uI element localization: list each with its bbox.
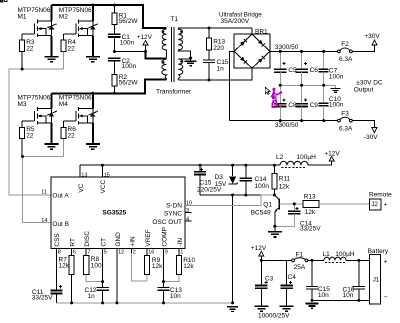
capacitor C3 10000/25V xyxy=(255,260,273,305)
svg-text:13: 13 xyxy=(81,172,87,178)
svg-text:12k: 12k xyxy=(59,263,70,270)
junction: M2 drain / top rail xyxy=(91,4,94,7)
svg-text:C4: C4 xyxy=(288,274,297,281)
junction: M4 drain / bottom rail xyxy=(91,92,94,95)
bridge diode D-SE xyxy=(258,56,265,63)
ground (M3 source) xyxy=(45,144,59,149)
junction: C14 node xyxy=(244,194,247,197)
connector J2 Remote xyxy=(369,191,392,209)
junction: Q1 base / C14 xyxy=(293,202,296,205)
wire and -30V arrow xyxy=(352,121,378,141)
svg-text:33/25V: 33/25V xyxy=(32,295,53,302)
svg-text:RT: RT xyxy=(70,238,77,247)
svg-text:100n: 100n xyxy=(255,183,270,190)
capacitor C7 100n xyxy=(319,51,344,85)
junction: C7-C10 / mid rail xyxy=(322,84,325,87)
svg-text:R11: R11 xyxy=(279,175,291,182)
pin 4 OSC OUT stub xyxy=(185,220,192,222)
secondary top winding xyxy=(178,28,190,51)
svg-text:4: 4 xyxy=(186,216,189,222)
svg-text:CSS: CSS xyxy=(54,233,61,247)
resistor R6 22 xyxy=(61,126,76,156)
junction: VCC / +12V rail xyxy=(101,164,104,167)
capacitor C9 xyxy=(295,85,318,120)
capacitor C1 100n xyxy=(108,34,134,52)
svg-text:56/2W: 56/2W xyxy=(119,18,139,25)
svg-text:Transformer: Transformer xyxy=(156,89,192,96)
resistor R13 12k (remote) xyxy=(303,194,319,216)
resistor R13 220 (snubber) xyxy=(206,28,225,52)
svg-text:J2: J2 xyxy=(371,201,378,208)
bottom pin stubs 8,6,7,5,12,2,16,9,1 xyxy=(57,249,184,256)
svg-text:1: 1 xyxy=(180,250,183,256)
svg-text:1n: 1n xyxy=(217,65,225,72)
svg-text:M2: M2 xyxy=(59,14,68,21)
ground (secondary center tap) xyxy=(185,59,197,66)
svg-text:10n: 10n xyxy=(343,292,354,299)
pin 13 VC stub xyxy=(79,165,81,177)
svg-text:+12V: +12V xyxy=(324,151,340,158)
svg-text:16: 16 xyxy=(148,250,154,256)
IC U1 SG3525 xyxy=(51,177,185,248)
wire: bridge left corner to -30V rail xyxy=(230,51,235,120)
bridge diode D-SW xyxy=(240,57,247,64)
capacitor C10 100n xyxy=(319,85,344,120)
svg-text:2: 2 xyxy=(133,250,136,256)
svg-text:+IN: +IN xyxy=(130,236,137,247)
junction: C16 / battery rail xyxy=(357,259,360,262)
junction: C14 / +12V rail xyxy=(244,164,247,167)
svg-text:6.3A: 6.3A xyxy=(339,56,353,63)
capacitor C15 220/25V xyxy=(194,165,222,195)
0V mid rail xyxy=(280,84,335,86)
ground (M4 source) xyxy=(86,144,100,149)
wire: secondary top to bridge xyxy=(178,28,252,29)
svg-text:12k: 12k xyxy=(183,263,194,270)
svg-text:12k: 12k xyxy=(152,263,163,270)
capacitor C15 1n (snubber) xyxy=(203,50,229,80)
svg-text:C6: C6 xyxy=(310,67,319,74)
junction: R13 snubber / secondary top xyxy=(208,27,211,30)
svg-text:100n: 100n xyxy=(122,63,137,70)
ground (M2 source) xyxy=(86,57,100,62)
capacitor C14 33/25V xyxy=(275,204,321,233)
junction: C1-C2 node xyxy=(113,50,116,53)
svg-text:12k: 12k xyxy=(305,209,316,216)
pin 3 SYNC stub xyxy=(185,212,192,214)
svg-text:-IN: -IN xyxy=(177,238,184,247)
svg-text:9: 9 xyxy=(165,250,168,256)
transformer T1 xyxy=(156,16,192,95)
svg-text:6.3A: 6.3A xyxy=(339,125,353,132)
svg-text:S-DN: S-DN xyxy=(166,202,182,209)
junction: D3 / +12V rail xyxy=(231,164,234,167)
ground (C15 filter) xyxy=(306,304,319,309)
junction: Q1 emitter ground xyxy=(273,225,276,228)
capacitor C14 100n xyxy=(240,165,270,195)
svg-text:1n: 1n xyxy=(88,293,96,300)
filter bottom rail xyxy=(312,299,369,301)
corner artifact xyxy=(0,0,8,2)
svg-text:VC: VC xyxy=(78,183,85,192)
transistor M4 MTP75N06 xyxy=(59,93,98,143)
wire: C1/C2 node to +12V tap xyxy=(114,51,145,53)
capacitor C5 3300/50 xyxy=(274,51,297,85)
junction: C13 / gnd rail xyxy=(162,301,165,304)
IC ground rail xyxy=(57,302,233,304)
svg-text:12k: 12k xyxy=(279,183,290,190)
bridge rectifier BR1 Ultrafast 35A/200V xyxy=(219,12,270,81)
capacitor C13 10n xyxy=(157,253,182,303)
svg-text:DISC: DISC xyxy=(84,231,91,247)
svg-text:F3: F3 xyxy=(341,111,349,118)
wire: gate bus A (Out A to R3,R4) xyxy=(9,69,63,195)
svg-text:Remote: Remote xyxy=(369,191,392,198)
junction: C12 / gnd rail xyxy=(101,301,104,304)
junction: C3 / battery rail xyxy=(260,259,263,262)
svg-text:11: 11 xyxy=(41,190,47,196)
junction: R5 / gate bus B xyxy=(21,155,24,158)
svg-text:100µH: 100µH xyxy=(297,154,317,161)
svg-text:+30V: +30V xyxy=(364,33,380,40)
svg-text:Output: Output xyxy=(354,87,374,94)
resistor R5 22 xyxy=(20,126,35,156)
junction: R1 / top rail xyxy=(113,4,116,7)
junction: GND pin / gnd rail xyxy=(115,301,118,304)
svg-text:33/25V: 33/25V xyxy=(300,226,321,233)
svg-text:T1: T1 xyxy=(171,16,179,23)
svg-text:22: 22 xyxy=(26,45,34,52)
svg-text:CT: CT xyxy=(101,238,108,247)
svg-text:35A/200V: 35A/200V xyxy=(221,18,250,25)
capacitor C2 100n xyxy=(108,58,136,75)
wire: gate bus B (Out B to R5,R6) xyxy=(23,157,64,223)
svg-text:6: 6 xyxy=(73,250,76,256)
svg-text:Out B: Out B xyxy=(52,221,69,228)
fuse F2 6.3A xyxy=(338,41,354,63)
resistor R2 56/2W xyxy=(112,74,139,93)
junction: C15 / +12V rail xyxy=(199,164,202,167)
junction: R11 / +12V rail xyxy=(273,164,276,167)
resistor R4 22 xyxy=(61,39,76,69)
svg-text:VCC: VCC xyxy=(100,179,107,193)
junction: R7 / gnd rail xyxy=(70,301,73,304)
junction: +12V tap / center tap xyxy=(144,50,147,53)
svg-text:10n: 10n xyxy=(170,293,181,300)
ground (C4) xyxy=(280,306,294,311)
svg-text:SYNC: SYNC xyxy=(164,211,182,218)
junction: R3 / gate bus A xyxy=(21,68,24,71)
svg-text:22: 22 xyxy=(68,133,76,140)
battery 12V rail xyxy=(261,259,291,261)
svg-text:Battery: Battery xyxy=(368,248,389,255)
svg-text:+: + xyxy=(384,201,388,208)
svg-text:14: 14 xyxy=(41,218,47,224)
svg-text:15: 15 xyxy=(104,172,110,178)
ground (mid rail) xyxy=(330,85,340,92)
+12V supply arrow (primary center tap) xyxy=(137,34,153,52)
pin 15 VCC stub xyxy=(101,165,103,177)
wire: secondary bottom to bridge xyxy=(178,68,252,80)
svg-text:+: + xyxy=(384,259,388,266)
wire and +30V arrow xyxy=(352,33,380,52)
junction: C7 / +30V rail xyxy=(322,50,325,53)
svg-text:BC549: BC549 xyxy=(251,209,271,216)
wire: C15/D3/C14 node line xyxy=(200,194,274,196)
svg-text:22: 22 xyxy=(26,133,34,140)
svg-text:F2: F2 xyxy=(341,41,349,48)
svg-text:8: 8 xyxy=(58,250,61,256)
+12V arrow at L2 xyxy=(308,151,340,166)
resistor R1 56/2W xyxy=(112,5,139,34)
svg-text:10n: 10n xyxy=(318,292,329,299)
junction: C5-C8 / mid rail xyxy=(279,84,282,87)
connector J1 Battery xyxy=(368,248,389,304)
svg-text:3300/50: 3300/50 xyxy=(275,44,299,51)
ground (Q1 emitter) xyxy=(268,226,282,237)
secondary bottom winding xyxy=(178,59,183,80)
svg-text:15V: 15V xyxy=(215,181,227,188)
svg-text:C14: C14 xyxy=(255,176,267,183)
svg-text:SG3525: SG3525 xyxy=(102,209,126,216)
junction: R10-COMP node xyxy=(162,280,165,283)
primary top winding xyxy=(162,29,166,58)
junction: C15 snubber / secondary bottom xyxy=(208,79,211,82)
svg-text:VREF: VREF xyxy=(145,229,152,246)
svg-text:100µH: 100µH xyxy=(335,251,355,258)
svg-text:−: − xyxy=(384,294,388,301)
svg-text:Q1: Q1 xyxy=(263,202,272,209)
resistor R9 12k xyxy=(144,253,163,281)
transistor M2 MTP75N06 xyxy=(59,5,98,56)
+30V DC rail xyxy=(270,50,338,52)
ground (D3 node line) xyxy=(227,307,238,312)
svg-text:10000/25V: 10000/25V xyxy=(258,313,290,320)
svg-text:±30V DC: ±30V DC xyxy=(356,80,383,87)
wire: D3 node down to ground xyxy=(232,195,234,303)
capacitor C12 1n xyxy=(85,253,109,303)
junction: C15 filter / bottom rail xyxy=(311,299,314,302)
+12V arrow (battery input) xyxy=(251,245,267,260)
junction: secondary center tap xyxy=(189,57,192,60)
svg-text:M3: M3 xyxy=(18,101,27,108)
wire: R13 to J2 xyxy=(319,203,370,205)
svg-text:J1: J1 xyxy=(373,277,380,284)
bridge diode D-NW xyxy=(240,39,247,46)
svg-text:COMP: COMP xyxy=(162,227,169,247)
svg-text:56/2W: 56/2W xyxy=(119,79,139,86)
junction: R8-CT node xyxy=(101,280,104,283)
junction: C10 / -30V rail xyxy=(322,119,325,122)
svg-text:C9: C9 xyxy=(310,102,319,109)
resistor R10 12k xyxy=(164,253,196,282)
resistor R7 12k xyxy=(59,253,75,303)
resistor R11 12k xyxy=(272,165,291,195)
svg-text:GND: GND xyxy=(115,232,122,247)
inductor L1 100uH xyxy=(323,251,355,262)
svg-text:100n: 100n xyxy=(329,74,344,81)
junction: D3 node xyxy=(231,194,234,197)
svg-text:+12V: +12V xyxy=(251,245,267,252)
transistor M3 MTP75N06 xyxy=(18,93,57,143)
svg-text:M1: M1 xyxy=(18,14,27,21)
svg-text:12: 12 xyxy=(118,250,124,256)
core xyxy=(172,27,175,82)
output label xyxy=(354,80,383,94)
svg-text:Out A: Out A xyxy=(52,192,69,199)
capacitor C4 xyxy=(281,260,297,305)
capacitor C8 3300/50 xyxy=(274,85,297,120)
+12V supply rail above IC xyxy=(80,164,280,166)
wire: +IN to R9 xyxy=(132,253,148,281)
svg-text:5: 5 xyxy=(104,250,107,256)
svg-text:R13: R13 xyxy=(304,194,316,201)
junction: Q1 collector node xyxy=(273,194,276,197)
svg-text:22: 22 xyxy=(68,45,76,52)
svg-text:M4: M4 xyxy=(59,101,68,108)
capacitor C16 10n xyxy=(343,260,366,300)
transistor M1 MTP75N06 xyxy=(18,5,57,56)
magenta sprite artifact xyxy=(271,88,283,107)
primary bottom winding xyxy=(162,59,167,79)
zener D3 15V xyxy=(215,165,238,188)
svg-text:OSC OUT: OSC OUT xyxy=(152,219,182,226)
resistor R8 100 xyxy=(84,253,103,282)
svg-text:L1: L1 xyxy=(323,251,331,258)
inductor L2 100uH xyxy=(276,154,316,168)
svg-text:220: 220 xyxy=(213,45,224,52)
svg-text:3300/50: 3300/50 xyxy=(275,122,299,129)
svg-text:100n: 100n xyxy=(329,101,344,108)
fuse F3 6.3A xyxy=(338,111,354,133)
svg-text:100n: 100n xyxy=(120,39,135,46)
junction: C5 / +30V rail xyxy=(279,50,282,53)
junction: C8 / -30V rail xyxy=(279,119,282,122)
junction: R2 / M3-M4 rail xyxy=(113,92,116,95)
svg-text:+12V: +12V xyxy=(137,34,153,41)
svg-text:C5: C5 xyxy=(288,67,297,74)
capacitor C11 33/25V xyxy=(32,253,63,303)
ground (C3) xyxy=(254,306,268,311)
wire: S-DN to Q1 collector node xyxy=(185,195,274,206)
wire: GND pin to rail xyxy=(116,253,118,303)
capacitor C15 10n (filter) xyxy=(306,260,330,300)
svg-text:7: 7 xyxy=(87,250,90,256)
svg-text:-30V: -30V xyxy=(364,134,378,141)
junction: gnd rail / D3 line xyxy=(231,301,234,304)
ground (M1 source) xyxy=(45,57,59,62)
svg-text:3: 3 xyxy=(186,208,189,214)
-30V rail xyxy=(230,120,338,122)
transistor Q1 BC549 xyxy=(251,195,280,226)
M3/M4 drain rail to transformer bottom winding xyxy=(52,80,167,94)
svg-text:100: 100 xyxy=(91,263,102,270)
svg-text:L2: L2 xyxy=(276,154,284,161)
junction: C9 / -30V rail xyxy=(300,119,303,122)
bridge diode D-NE xyxy=(258,40,265,47)
top drain rail (M1,M2 to transformer) xyxy=(52,5,167,28)
svg-text:25A: 25A xyxy=(294,264,306,271)
wire: Q1 base to R13 xyxy=(279,203,303,205)
junction: C6 / +30V rail xyxy=(300,50,303,53)
mouse cursor artifact xyxy=(265,87,270,94)
junction: C15 filter / battery rail xyxy=(311,259,314,262)
junction: C16 / bottom rail xyxy=(357,299,360,302)
capacitor C6 xyxy=(295,51,318,85)
svg-text:F1: F1 xyxy=(296,252,304,259)
fuse F1 25A xyxy=(292,252,308,271)
junction: C6-C9 / mid rail xyxy=(300,84,303,87)
resistor R3 22 xyxy=(20,39,35,69)
